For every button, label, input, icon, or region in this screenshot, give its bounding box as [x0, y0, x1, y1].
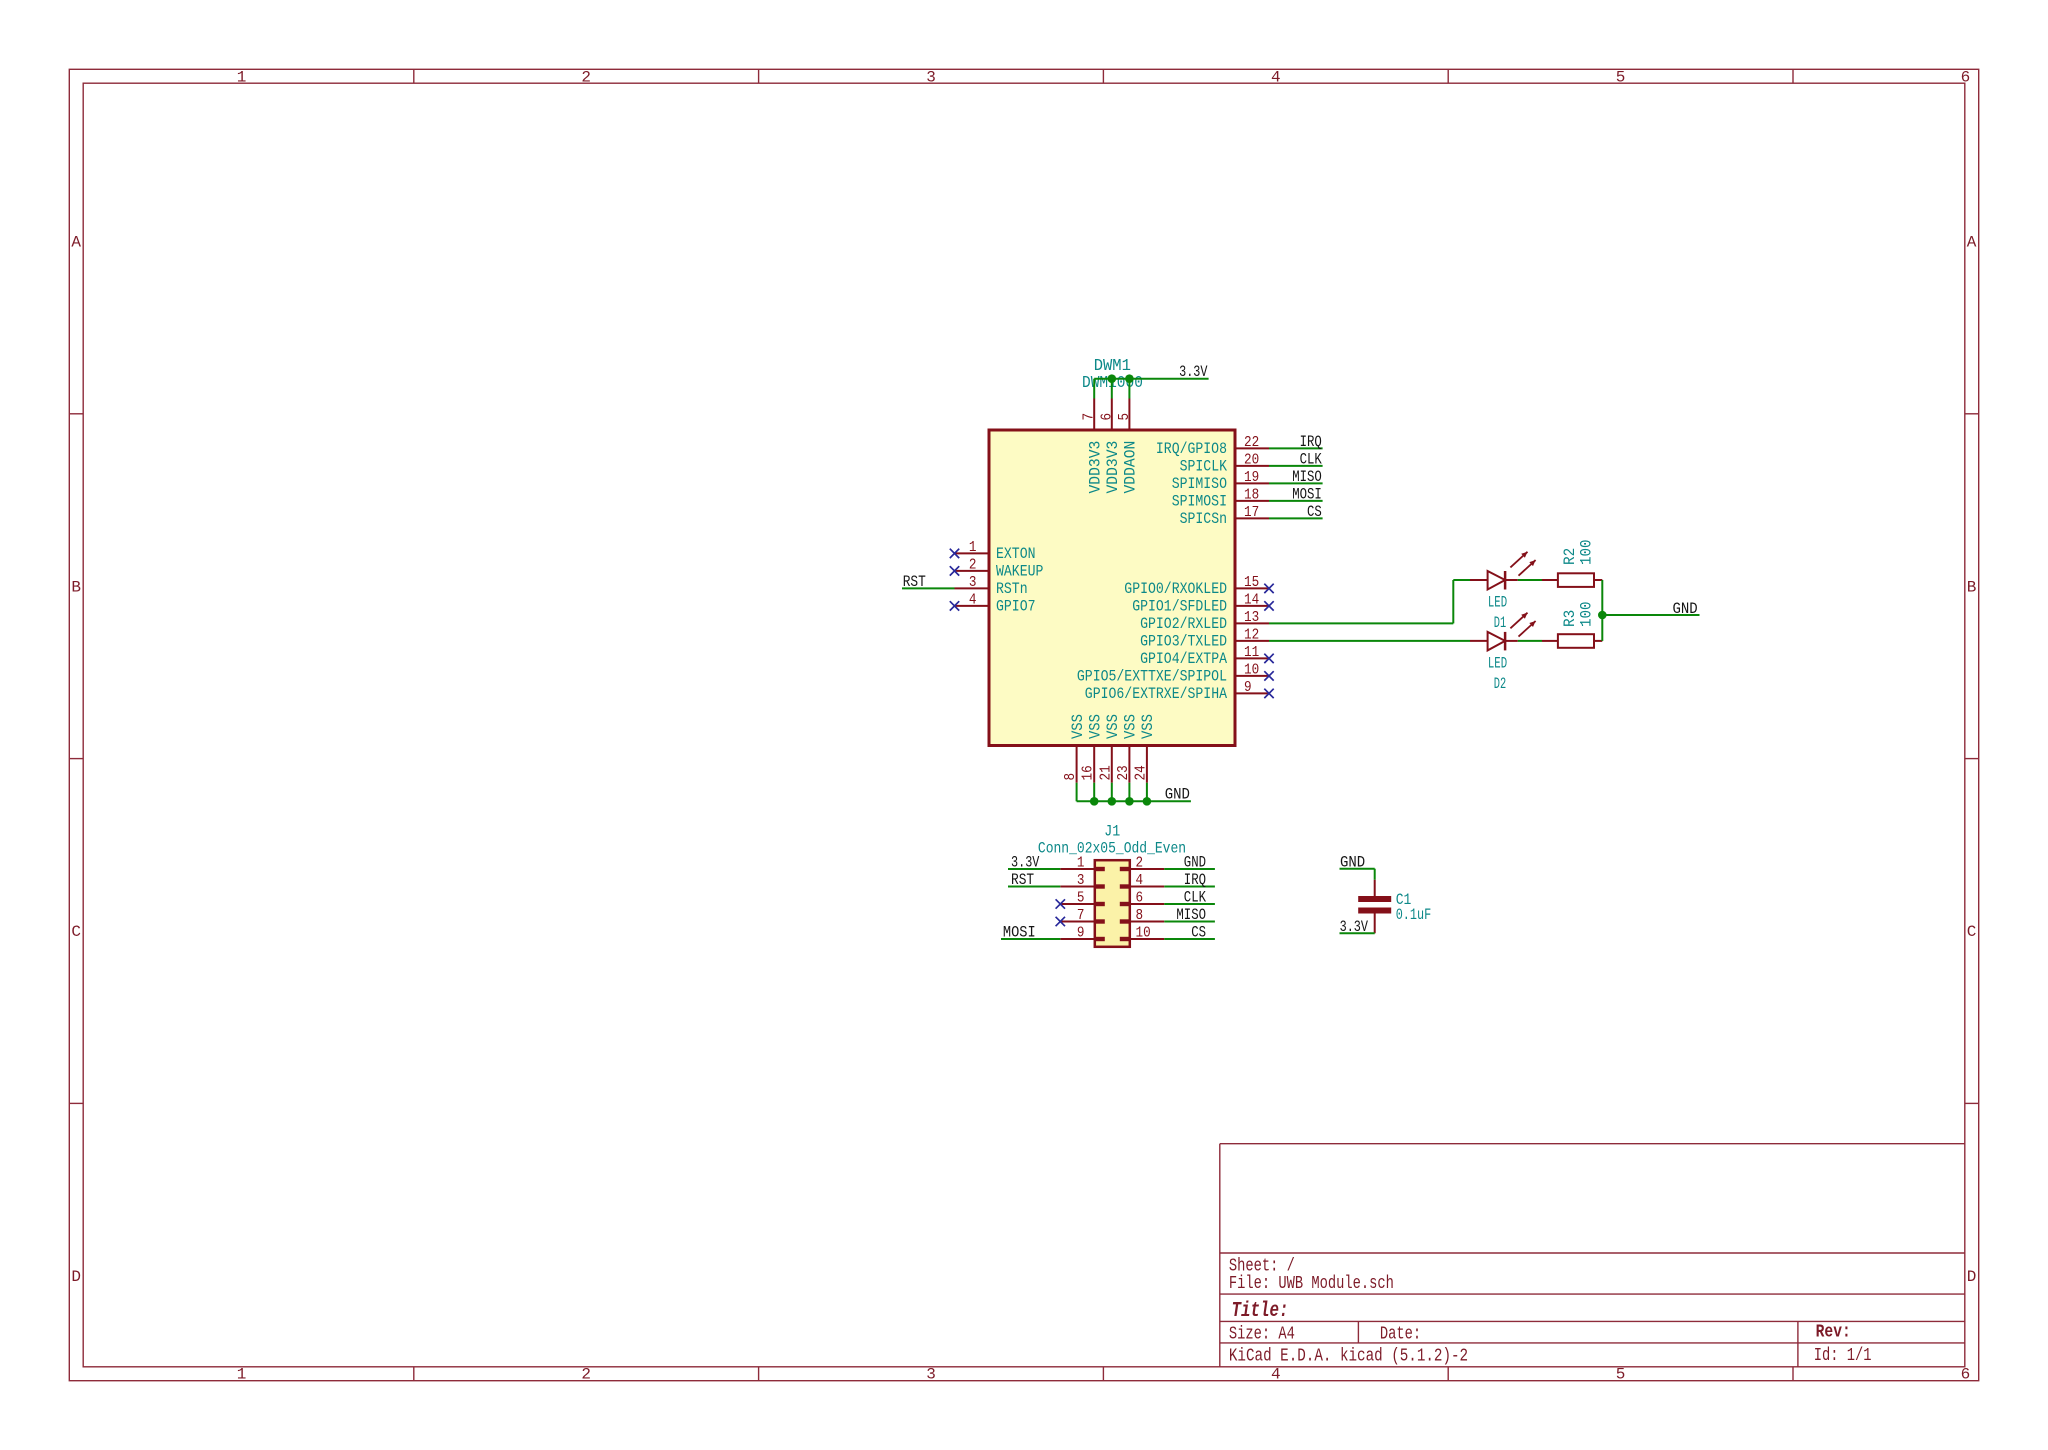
svg-text:18: 18	[1244, 486, 1259, 503]
svg-text:100: 100	[1577, 540, 1595, 566]
pin 24 VSS	[1132, 714, 1157, 783]
svg-text:CLK: CLK	[1184, 889, 1207, 907]
pin 7	[1060, 907, 1105, 924]
wire	[1128, 783, 1130, 802]
svg-text:VSS: VSS	[1069, 714, 1087, 739]
svg-text:GND: GND	[1673, 600, 1698, 618]
pin 18 SPIMOSI	[1172, 486, 1269, 510]
svg-text:VSS: VSS	[1122, 714, 1140, 739]
svg-text:19: 19	[1244, 469, 1259, 486]
svg-text:6: 6	[1136, 890, 1144, 907]
no-connect	[1264, 654, 1273, 663]
svg-text:VDD3V3: VDD3V3	[1104, 441, 1122, 494]
svg-text:R2: R2	[1561, 548, 1579, 565]
junction	[1108, 374, 1117, 383]
svg-text:D1: D1	[1494, 614, 1506, 632]
net label 3.3V	[1340, 918, 1369, 936]
pin 9 GPIO6/EXTRXE/SPIHA	[1085, 679, 1269, 703]
wire RSTn	[902, 587, 955, 589]
svg-text:23: 23	[1115, 765, 1132, 780]
svg-text:GPIO5/EXTTXE/SPIPOL: GPIO5/EXTTXE/SPIPOL	[1077, 668, 1227, 686]
svg-text:D: D	[1967, 1268, 1977, 1286]
svg-text:9: 9	[1077, 925, 1085, 942]
svg-text:A: A	[1967, 234, 1977, 252]
pin 3 RSTn	[955, 574, 1028, 598]
net label GND	[1184, 854, 1206, 872]
no-connect	[1264, 601, 1273, 610]
pin 11 GPIO4/EXTPA	[1140, 644, 1269, 668]
wire GND rail	[1077, 800, 1191, 802]
svg-text:3.3V: 3.3V	[1340, 918, 1369, 936]
wire CS	[1269, 517, 1323, 519]
wire	[1164, 921, 1215, 923]
wire	[1111, 379, 1113, 399]
net label IRQ	[1184, 871, 1206, 889]
svg-text:1: 1	[237, 68, 247, 86]
svg-text:6: 6	[1961, 68, 1971, 86]
svg-text:5: 5	[1116, 413, 1133, 421]
wire	[1093, 379, 1095, 399]
junction	[1125, 374, 1134, 383]
svg-text:3: 3	[926, 1366, 936, 1384]
pin 8	[1120, 907, 1165, 924]
wire	[1001, 938, 1060, 940]
svg-text:WAKEUP: WAKEUP	[996, 563, 1043, 581]
pin 1 EXTON	[955, 539, 1036, 563]
svg-text:J1: J1	[1104, 823, 1120, 841]
net label CS	[1191, 924, 1206, 942]
svg-text:Rev:: Rev:	[1816, 1323, 1851, 1343]
svg-text:D2: D2	[1494, 675, 1506, 693]
wire	[1128, 379, 1130, 399]
wire	[1518, 640, 1542, 642]
pin 6	[1120, 890, 1165, 907]
svg-text:GPIO0/RXOKLED: GPIO0/RXOKLED	[1124, 580, 1227, 598]
pin 5	[1060, 890, 1105, 907]
svg-text:14: 14	[1244, 591, 1259, 608]
pin 15 GPIO0/RXOKLED	[1124, 574, 1269, 598]
pin 4 GPIO7	[955, 592, 1036, 616]
svg-text:GND: GND	[1165, 786, 1190, 804]
svg-text:R3: R3	[1561, 610, 1579, 627]
wire	[1146, 783, 1148, 802]
net label 3.3V	[1011, 854, 1040, 872]
svg-text:21: 21	[1097, 765, 1114, 780]
net label MISO	[1176, 906, 1206, 924]
wire	[1008, 886, 1060, 888]
IC U1 DWM1 DWM1000 body	[989, 430, 1235, 746]
svg-text:1: 1	[969, 539, 977, 556]
svg-text:5: 5	[1616, 68, 1626, 86]
pin 22 IRQ/GPIO8	[1156, 434, 1269, 458]
svg-text:VSS: VSS	[1104, 714, 1122, 739]
resistor R3 100	[1542, 602, 1602, 648]
wire MISO	[1269, 482, 1323, 484]
svg-text:CS: CS	[1307, 503, 1322, 521]
svg-text:VSS: VSS	[1087, 714, 1105, 739]
net label GND	[1340, 853, 1365, 871]
wire	[1601, 615, 1603, 641]
wire	[1164, 938, 1215, 940]
net label RST	[903, 573, 926, 591]
svg-text:VDD3V3: VDD3V3	[1087, 441, 1105, 494]
wire GPIO2/RXLED to D1	[1269, 580, 1470, 623]
svg-text:RST: RST	[1011, 871, 1034, 889]
capacitor C1 0.1uF	[1358, 880, 1431, 934]
pin 21 VSS	[1097, 714, 1122, 783]
svg-text:GND: GND	[1184, 854, 1206, 872]
svg-text:LED: LED	[1488, 593, 1507, 611]
svg-text:2: 2	[1136, 855, 1144, 872]
net label GND	[1673, 600, 1698, 618]
wire	[1164, 886, 1215, 888]
svg-text:C: C	[1967, 923, 1977, 941]
svg-text:3.3V: 3.3V	[1179, 363, 1208, 381]
svg-text:3.3V: 3.3V	[1011, 854, 1040, 872]
wire MOSI	[1269, 500, 1323, 502]
wire CLK	[1269, 465, 1323, 467]
junction	[1125, 797, 1134, 806]
svg-text:File: UWB Module.sch: File: UWB Module.sch	[1229, 1274, 1394, 1294]
svg-text:IRQ: IRQ	[1184, 871, 1206, 889]
pin 10	[1120, 925, 1165, 942]
svg-text:VDDAON: VDDAON	[1122, 441, 1140, 494]
pin 23 VSS	[1115, 714, 1140, 783]
pin 7 VDD3V3	[1081, 399, 1105, 494]
net label CLK	[1184, 889, 1207, 907]
net label CLK	[1300, 451, 1323, 469]
svg-text:CS: CS	[1191, 924, 1206, 942]
svg-text:SPICLK: SPICLK	[1180, 458, 1228, 476]
svg-text:24: 24	[1132, 765, 1149, 780]
svg-text:KiCad E.D.A. kicad (5.1.2)-2: KiCad E.D.A. kicad (5.1.2)-2	[1229, 1347, 1468, 1367]
svg-text:17: 17	[1244, 504, 1259, 521]
svg-text:SPIMISO: SPIMISO	[1172, 475, 1227, 493]
no-connect	[1056, 917, 1065, 926]
no-connect	[950, 601, 959, 610]
wire	[1518, 579, 1542, 581]
pin 2	[1120, 855, 1165, 872]
net label IRQ	[1300, 433, 1322, 451]
wire IRQ	[1269, 447, 1323, 449]
net label MOSI	[1292, 486, 1322, 504]
pin 3	[1060, 872, 1105, 889]
pin 1	[1060, 855, 1105, 872]
svg-text:D: D	[71, 1268, 81, 1286]
svg-text:IRQ: IRQ	[1300, 433, 1322, 451]
svg-text:2: 2	[969, 557, 977, 574]
svg-text:GPIO1/SFDLED: GPIO1/SFDLED	[1132, 598, 1227, 616]
label Conn_02x05_Odd_Even	[1038, 839, 1186, 857]
svg-text:IRQ/GPIO8: IRQ/GPIO8	[1156, 440, 1227, 458]
svg-text:SPIMOSI: SPIMOSI	[1172, 493, 1227, 511]
svg-text:VSS: VSS	[1139, 714, 1157, 739]
no-connect	[950, 566, 959, 575]
svg-text:3: 3	[926, 68, 936, 86]
svg-text:11: 11	[1244, 644, 1259, 661]
svg-text:7: 7	[1081, 413, 1098, 421]
title block	[1220, 1144, 1965, 1367]
svg-text:GPIO4/EXTPA: GPIO4/EXTPA	[1140, 650, 1227, 668]
svg-text:8: 8	[1136, 907, 1144, 924]
wire	[1164, 903, 1215, 905]
svg-text:15: 15	[1244, 574, 1259, 591]
net label 3.3V	[1179, 363, 1208, 381]
junction	[1090, 797, 1099, 806]
svg-text:C: C	[71, 923, 81, 941]
pin 16 VSS	[1080, 714, 1105, 783]
wire 3.3V rail	[1094, 378, 1208, 380]
svg-text:GPIO2/RXLED: GPIO2/RXLED	[1140, 615, 1227, 633]
svg-text:10: 10	[1244, 661, 1259, 678]
wire	[1111, 783, 1113, 802]
pin 20 SPICLK	[1180, 451, 1269, 475]
net label CS	[1307, 503, 1322, 521]
svg-text:GPIO7: GPIO7	[996, 598, 1036, 616]
svg-text:5: 5	[1077, 890, 1085, 907]
wire GND	[1602, 614, 1699, 616]
svg-text:16: 16	[1080, 765, 1097, 780]
wire	[1601, 580, 1603, 615]
svg-text:9: 9	[1244, 679, 1252, 696]
connector J1 Conn_02x05_Odd_Even body	[1095, 860, 1130, 947]
pin 5 VDDAON	[1116, 399, 1140, 494]
no-connect	[950, 549, 959, 558]
net label MISO	[1292, 468, 1322, 486]
net label MOSI	[1003, 924, 1036, 942]
svg-text:13: 13	[1244, 609, 1259, 626]
svg-text:MISO: MISO	[1292, 468, 1322, 486]
pin 17 SPICSn	[1180, 504, 1269, 528]
svg-text:12: 12	[1244, 626, 1259, 643]
svg-text:EXTON: EXTON	[996, 545, 1036, 563]
svg-text:10: 10	[1136, 925, 1151, 942]
pin 13 GPIO2/RXLED	[1140, 609, 1269, 633]
svg-text:Title:: Title:	[1232, 1300, 1289, 1323]
LED D1	[1470, 552, 1536, 632]
svg-text:1: 1	[1077, 855, 1085, 872]
svg-text:B: B	[1967, 578, 1977, 596]
pin 8 VSS	[1062, 714, 1087, 783]
svg-text:4: 4	[1271, 68, 1281, 86]
svg-text:1: 1	[237, 1366, 247, 1384]
pin 4	[1120, 872, 1165, 889]
label J1	[1104, 823, 1120, 841]
pin 9	[1060, 925, 1105, 942]
svg-text:LED: LED	[1488, 654, 1507, 672]
pin 14 GPIO1/SFDLED	[1132, 591, 1269, 615]
svg-text:6: 6	[1961, 1366, 1971, 1384]
svg-text:RST: RST	[903, 573, 926, 591]
label DWM1000	[1082, 374, 1143, 393]
LED D2	[1470, 613, 1536, 693]
pin 2 WAKEUP	[955, 557, 1044, 581]
resistor R2 100	[1542, 540, 1602, 587]
svg-text:2: 2	[581, 1366, 591, 1384]
svg-text:6: 6	[1098, 413, 1115, 421]
wire	[1093, 783, 1095, 802]
pin 12 GPIO3/TXLED	[1140, 626, 1269, 650]
svg-text:0.1uF: 0.1uF	[1396, 906, 1432, 924]
wire	[1164, 868, 1215, 870]
net label RST	[1011, 871, 1034, 889]
svg-text:Conn_02x05_Odd_Even: Conn_02x05_Odd_Even	[1038, 839, 1186, 857]
wire GND to C1	[1340, 869, 1375, 880]
label DWM1	[1094, 357, 1131, 376]
junction	[1143, 797, 1152, 806]
svg-text:100: 100	[1577, 602, 1595, 628]
svg-text:GPIO6/EXTRXE/SPIHA: GPIO6/EXTRXE/SPIHA	[1085, 685, 1228, 703]
svg-text:4: 4	[969, 592, 977, 609]
svg-text:GPIO3/TXLED: GPIO3/TXLED	[1140, 633, 1227, 651]
svg-text:2: 2	[581, 68, 591, 86]
svg-text:4: 4	[1136, 872, 1144, 889]
svg-text:Id: 1/1: Id: 1/1	[1814, 1346, 1872, 1366]
svg-text:7: 7	[1077, 907, 1085, 924]
svg-text:3: 3	[1077, 872, 1085, 889]
pin 10 GPIO5/EXTTXE/SPIPOL	[1077, 661, 1269, 685]
junction node GND	[1598, 611, 1607, 620]
no-connect	[1056, 899, 1065, 908]
net label GND	[1165, 786, 1190, 804]
wire	[1008, 868, 1060, 870]
no-connect	[1264, 584, 1273, 593]
svg-text:3: 3	[969, 574, 977, 591]
svg-text:MOSI: MOSI	[1003, 924, 1036, 942]
svg-text:Size: A4: Size: A4	[1229, 1325, 1295, 1345]
svg-text:4: 4	[1271, 1366, 1281, 1384]
svg-text:Date:: Date:	[1380, 1325, 1421, 1345]
svg-text:MOSI: MOSI	[1292, 486, 1322, 504]
svg-text:SPICSn: SPICSn	[1180, 510, 1227, 528]
svg-text:B: B	[71, 578, 81, 596]
wire 3.3V to C1	[1340, 932, 1375, 934]
wire	[1076, 783, 1078, 802]
no-connect	[1264, 671, 1273, 680]
svg-text:5: 5	[1616, 1366, 1626, 1384]
junction	[1108, 797, 1117, 806]
svg-text:8: 8	[1062, 773, 1079, 781]
svg-text:22: 22	[1244, 434, 1259, 451]
pin 6 VDD3V3	[1098, 399, 1122, 494]
svg-text:A: A	[71, 234, 81, 252]
no-connect	[1264, 689, 1273, 698]
svg-text:CLK: CLK	[1300, 451, 1323, 469]
pin 19 SPIMISO	[1172, 469, 1269, 493]
wire GPIO3/TXLED to D2	[1269, 640, 1470, 642]
svg-text:20: 20	[1244, 451, 1259, 468]
svg-text:RSTn: RSTn	[996, 580, 1028, 598]
svg-text:MISO: MISO	[1176, 906, 1206, 924]
